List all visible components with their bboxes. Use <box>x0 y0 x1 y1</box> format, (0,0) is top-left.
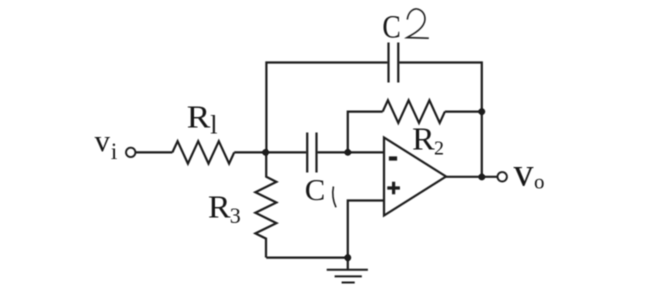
ground bar 1 <box>327 269 368 271</box>
svg-text:l: l <box>210 111 217 140</box>
wire R1 to node A to C1 left plate <box>234 151 306 153</box>
capacitor C1 left plate <box>306 133 308 173</box>
svg-text:i: i <box>111 139 117 164</box>
ground bar 3 <box>342 282 355 284</box>
svg-text:R: R <box>208 189 231 225</box>
resistor R3 <box>255 152 276 257</box>
node B junction dot <box>344 149 351 156</box>
svg-text:R: R <box>187 99 211 135</box>
svg-text:C: C <box>305 172 326 207</box>
capacitor C2 left plate <box>387 43 389 83</box>
wire input to R1 <box>136 151 173 153</box>
output terminal vo circle <box>498 172 507 181</box>
svg-text:v: v <box>514 149 534 194</box>
capacitor C2 right plate <box>397 43 399 83</box>
wire node A up and top wire to C2 left plate <box>266 63 387 153</box>
op-amp U1 triangle <box>384 138 446 216</box>
label C1 handwritten 1 stroke <box>333 187 336 208</box>
wire C1 right plate to node B to op-amp inverting input <box>318 151 384 153</box>
wire R2 to right vertical <box>445 110 482 112</box>
svg-text:v: v <box>95 123 111 158</box>
svg-text:o: o <box>534 170 545 194</box>
wire non-inverting input to ground node <box>348 201 384 258</box>
output wire op-amp to terminal <box>446 176 497 178</box>
R2 output junction dot <box>478 108 485 115</box>
ground stub <box>347 258 349 270</box>
svg-text:C: C <box>382 9 400 45</box>
svg-text:2: 2 <box>434 137 444 159</box>
ground bar 2 <box>335 275 362 277</box>
op-amp plus sign <box>387 182 400 194</box>
bottom wire R3 to ground node <box>266 257 348 259</box>
output node junction dot <box>478 174 485 181</box>
capacitor C1 right plate <box>315 133 317 173</box>
svg-text:3: 3 <box>230 203 241 228</box>
resistor R1 <box>172 141 234 163</box>
label C2 handwritten 2 stroke <box>407 9 429 38</box>
ground junction dot <box>344 254 351 261</box>
op-amp minus sign <box>389 156 397 160</box>
resistor R2 <box>383 100 445 123</box>
node A junction dot <box>262 149 269 156</box>
wire node B up to R2 <box>348 112 383 153</box>
input terminal vi circle <box>126 148 135 157</box>
svg-text:R: R <box>412 121 435 157</box>
top wire C2 right plate to right vertical down to output node <box>399 63 481 178</box>
